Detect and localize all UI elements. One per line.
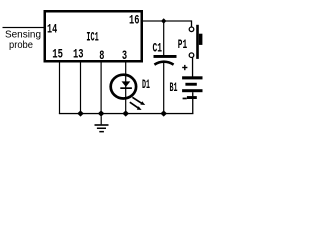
IC U1 box [45,11,142,61]
battery B1 plus sign [182,67,187,68]
LED light arrow 1 [132,97,141,103]
svg-text:D1: D1 [142,77,150,92]
svg-text:13: 13 [73,47,84,62]
wire pin 13 down [80,62,81,114]
pushbutton P1 terminal bottom [189,53,194,58]
battery B1 plate 1 long [182,76,202,79]
wire P1 to battery [192,58,193,77]
ground stub wire [101,116,102,124]
wire battery to bus [192,92,193,114]
junction dot pin8 bus [98,110,105,116]
wire down to P1 [191,20,192,27]
wire pin16 to node A [143,20,192,21]
svg-text:B1: B1 [170,80,178,95]
pushbutton P1 actuator cap [199,34,203,45]
LED light arrow 2 [130,102,138,108]
sensing probe wire [3,27,45,28]
wire node A down to C1 [163,21,164,55]
wire C1 to bus [163,63,164,114]
ground symbol bar 3 [99,131,104,133]
LED D1 anode triangle [122,81,131,87]
svg-text:16: 16 [129,12,140,27]
LED D1 cathode bar [120,87,132,89]
wire pin 3 down through LED [125,62,126,114]
wire pin 15 down [59,62,60,114]
pushbutton P1 terminal top [189,27,194,32]
svg-text:C1: C1 [153,40,163,55]
svg-text:14: 14 [47,22,57,37]
svg-text:3: 3 [122,49,128,63]
svg-text:15: 15 [52,47,63,62]
svg-text:8: 8 [99,49,104,63]
wire pin 8 down [101,62,102,114]
junction dot LED bus [122,110,129,116]
battery B1 plate 4 short [187,96,197,99]
svg-text:P1: P1 [178,37,188,52]
battery B1 plate 2 short [185,83,196,86]
ground symbol bar 1 [95,124,109,126]
battery B1 plate 3 long [182,89,202,92]
node A junction dot [161,18,166,24]
capacitor C1 top plate [154,55,177,58]
capacitor C1 bottom plate arc [154,62,173,65]
LED D1 circle [111,75,136,99]
svg-text:probe: probe [9,39,33,51]
svg-text:IC1: IC1 [86,30,99,45]
ground bus wire [59,113,194,114]
battery B1 minus sign [183,98,187,100]
ground symbol bar 2 [97,128,106,130]
pushbutton P1 contact bar [196,25,199,59]
junction dot C1 bus [160,110,167,116]
junction dot pin13 bus [77,110,84,116]
